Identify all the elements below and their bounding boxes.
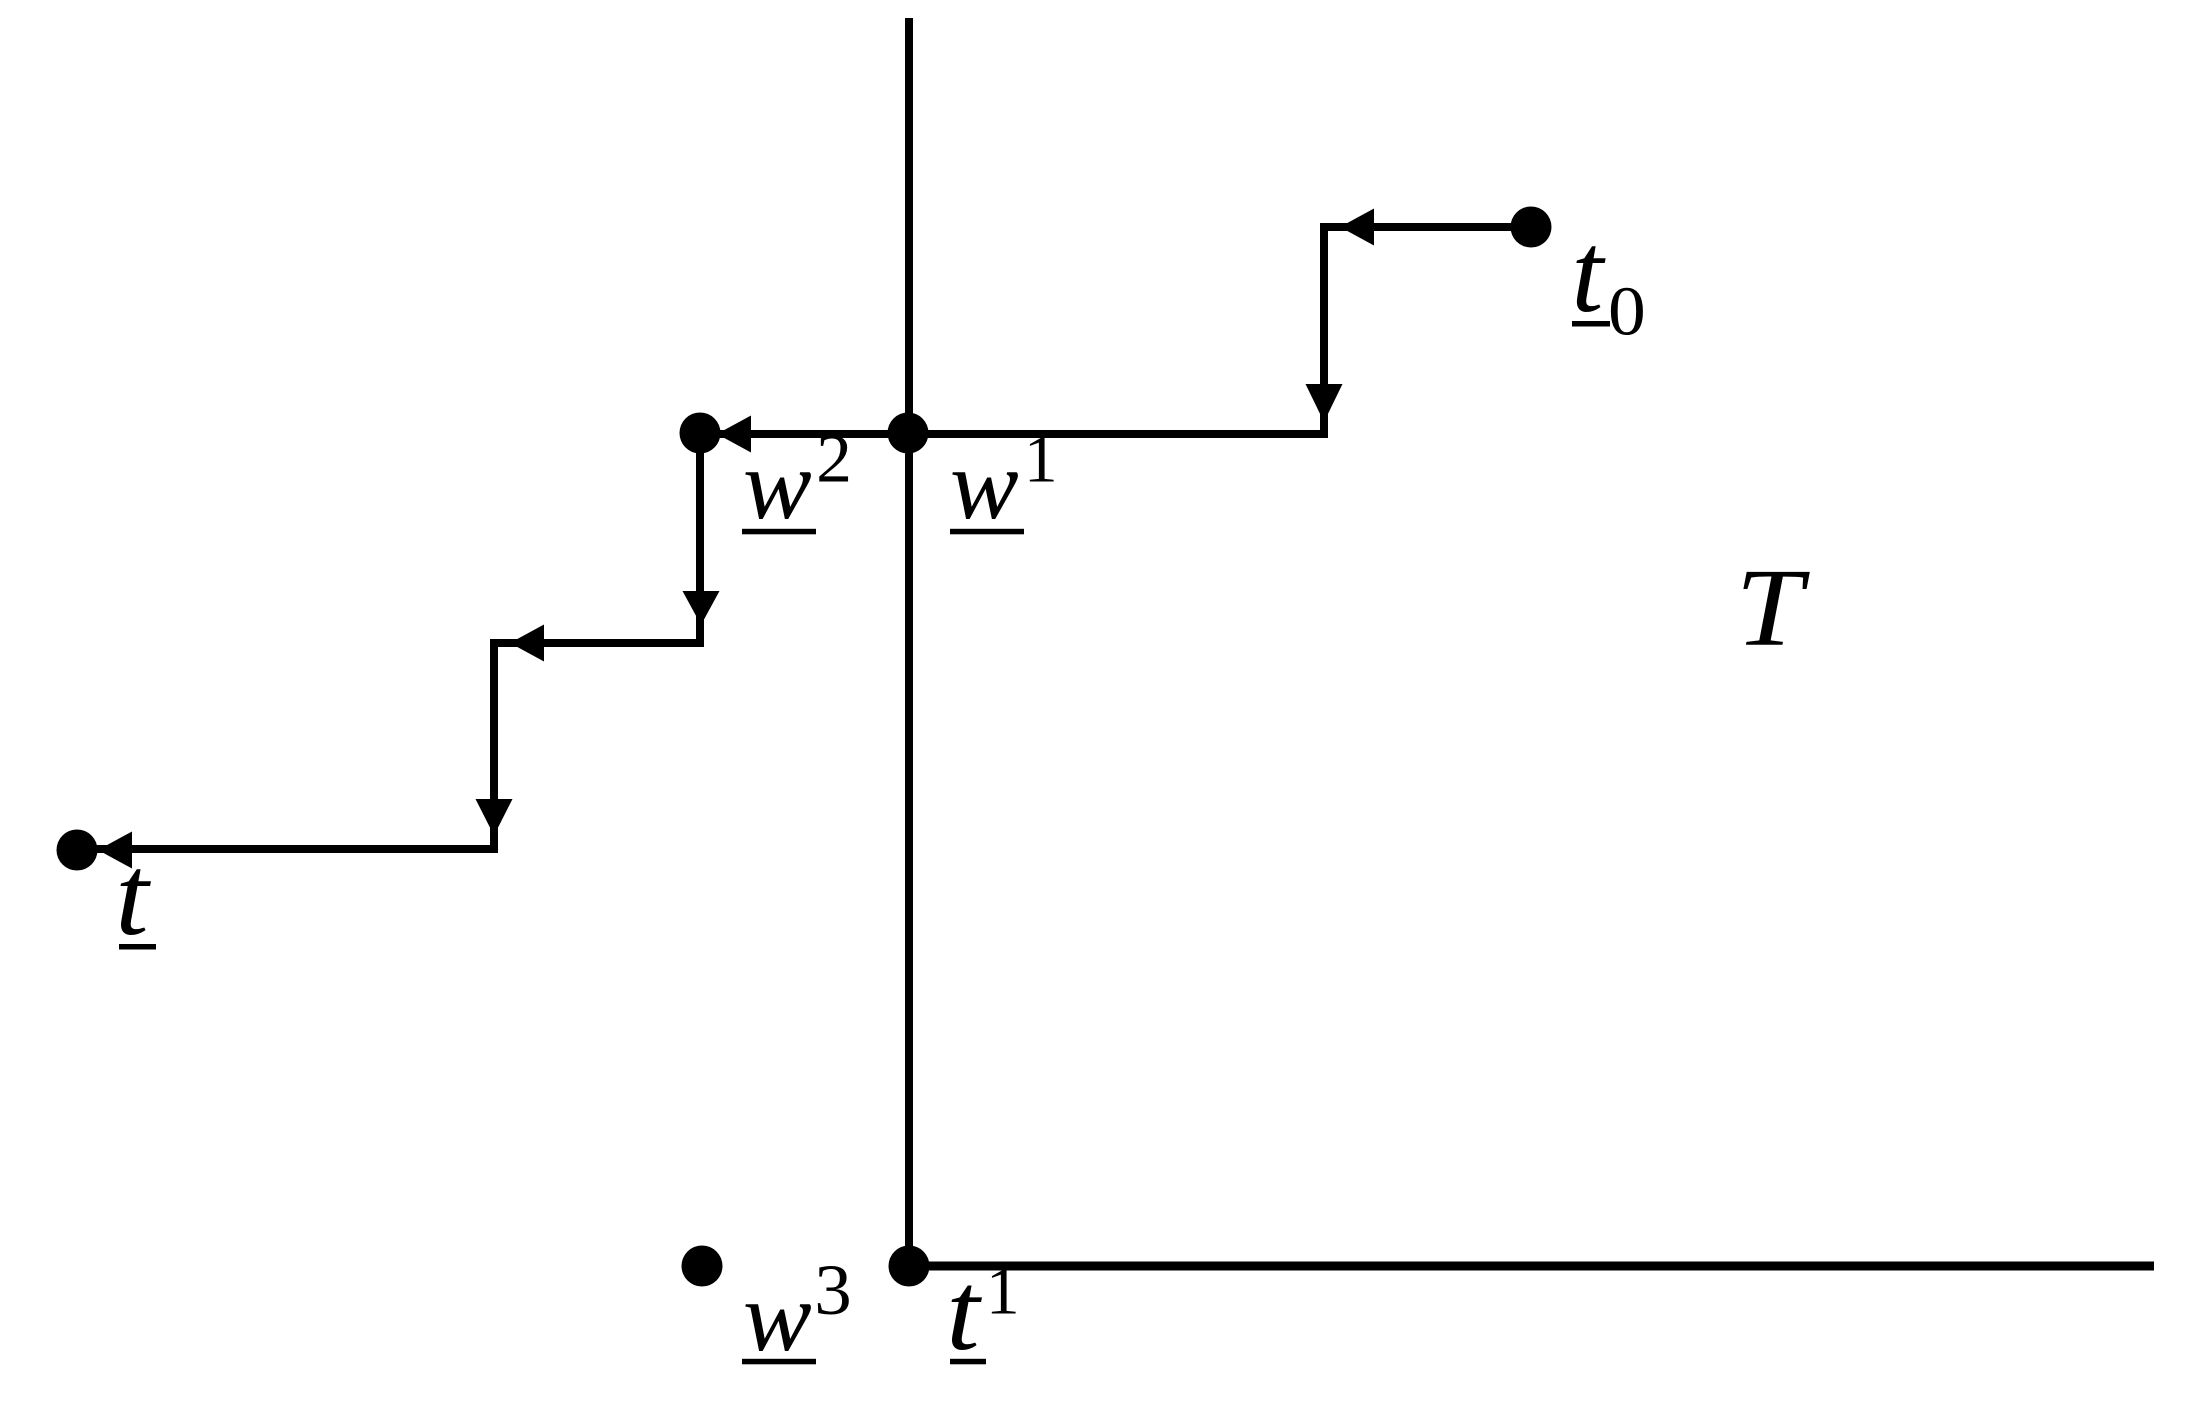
arrowhead left on middle step (510, 625, 544, 662)
svg-text:2: 2 (816, 421, 852, 497)
svg-text:1: 1 (986, 1254, 1020, 1329)
svg-text:0: 0 (1608, 272, 1646, 350)
label t (bottom left) (115, 834, 156, 960)
label w3 (742, 1249, 852, 1371)
arrowhead left on segment into t (98, 832, 132, 869)
label t1 (946, 1249, 1020, 1374)
label w1 (950, 422, 1058, 540)
svg-text:t: t (946, 1249, 982, 1374)
svg-text:w: w (950, 428, 1019, 539)
horizontal boundary line of region T (909, 1262, 2154, 1271)
node w2 dot (680, 413, 721, 454)
arrowhead down on segment below w2 (683, 591, 720, 625)
label t0 (1571, 209, 1645, 349)
node w1 dot (888, 413, 929, 454)
arrowhead down on segment into t level (476, 799, 513, 836)
node t0 dot (1511, 207, 1552, 248)
svg-text:w: w (743, 1260, 812, 1371)
node t1 dot (889, 1246, 930, 1287)
svg-text:1: 1 (1024, 422, 1058, 497)
svg-text:3: 3 (814, 1249, 851, 1329)
label w2 (742, 421, 852, 540)
staircase wire path t0 -> t (77, 227, 1531, 849)
svg-text:t: t (1571, 209, 1606, 335)
label T (region) (1736, 548, 1811, 670)
arrowhead left on segment w1->w2 (717, 416, 751, 453)
svg-text:T: T (1736, 548, 1811, 670)
node w3 dot (682, 1246, 723, 1287)
arrowhead left on segment t0->w1 (1340, 209, 1374, 246)
node t dot (57, 830, 98, 871)
svg-text:w: w (743, 428, 812, 539)
svg-text:t: t (115, 834, 151, 960)
vertical axis line (905, 18, 913, 1266)
arrowhead down on segment into w1 level (1306, 384, 1343, 422)
